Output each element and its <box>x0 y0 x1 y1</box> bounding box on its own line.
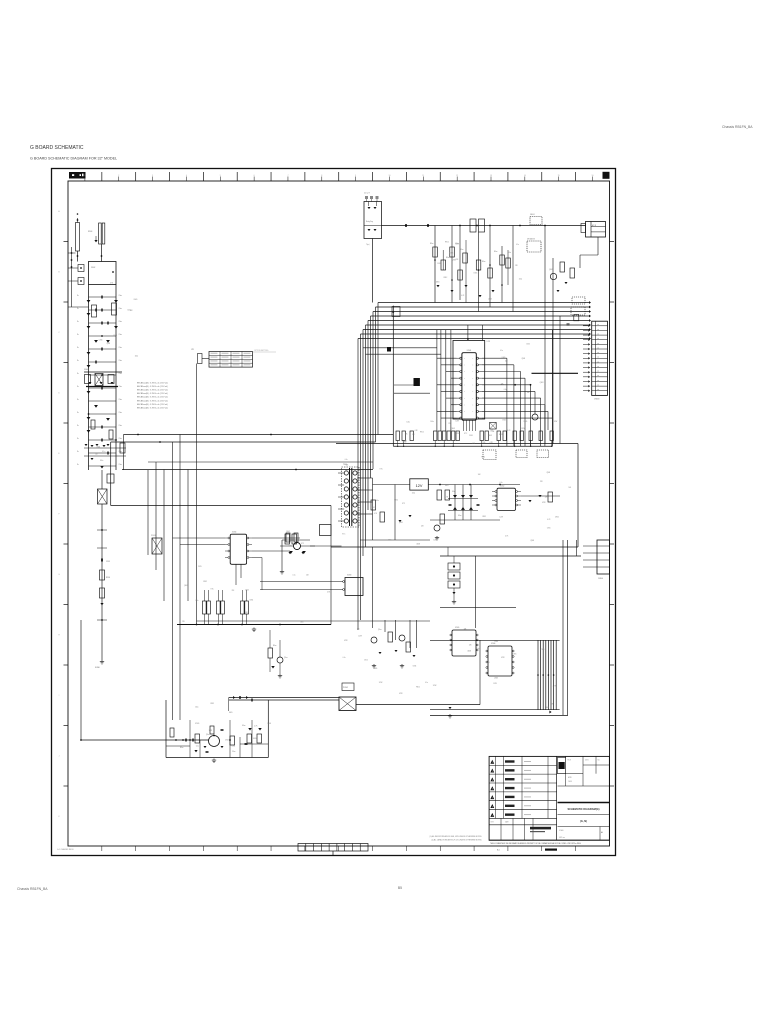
wire vertical right <box>562 540 564 715</box>
pin <box>247 557 249 559</box>
grid tick column minor <box>422 177 424 182</box>
svg-text:C1 C2 T: C1 C2 T <box>364 193 370 195</box>
connector row line <box>592 334 608 336</box>
svg-text:R916: R916 <box>106 577 110 579</box>
pin <box>476 377 478 379</box>
transformer winding <box>344 495 348 499</box>
grid tick row left <box>64 543 69 545</box>
svg-text:JP1: JP1 <box>191 349 194 351</box>
pin stub <box>457 357 460 359</box>
svg-text:T(xx): T(xx) <box>366 244 370 246</box>
resistor R11 <box>410 431 413 441</box>
svg-text:D905: D905 <box>502 357 506 359</box>
svg-text:0.1u: 0.1u <box>373 507 376 509</box>
capacitor C910 <box>101 559 102 562</box>
junction <box>101 374 103 376</box>
transformer core line <box>351 468 353 526</box>
pin stub <box>225 537 228 539</box>
svg-text:EECB3xxx(B) : 3.3V B+ ok (7.5: EECB3xxx(B) : 3.3V B+ ok (7.5V ok) <box>137 404 168 406</box>
pin <box>460 384 462 386</box>
wire <box>366 353 441 355</box>
diode D983 <box>413 655 416 657</box>
svg-text:7: 7 <box>287 175 288 177</box>
grid tick column <box>202 172 204 181</box>
wire IC bottom <box>463 420 465 431</box>
wire rail <box>430 639 560 641</box>
filter FB904 <box>571 307 585 315</box>
svg-text:0.1u: 0.1u <box>516 244 519 246</box>
option table column line <box>230 352 232 368</box>
wire <box>551 441 553 447</box>
wire IC left net <box>446 371 457 373</box>
diode D10 <box>114 326 118 329</box>
option table cell text <box>233 352 240 355</box>
fold-mark divider <box>313 844 315 852</box>
transformer lead <box>338 472 344 474</box>
title thick divider <box>558 802 610 804</box>
resistor R962 <box>445 490 450 500</box>
inductor L902 <box>479 219 485 232</box>
pin <box>476 634 478 636</box>
wire <box>101 470 103 489</box>
connector CN903 <box>592 321 608 395</box>
pin <box>512 650 514 652</box>
svg-text:x: x <box>473 398 474 400</box>
wire <box>576 540 578 556</box>
pin <box>512 661 514 663</box>
revision table row line <box>489 800 556 802</box>
wire IC left net <box>451 404 457 406</box>
resistor R982 <box>406 642 411 652</box>
diode D21 <box>450 290 453 292</box>
svg-text:R912: R912 <box>445 242 449 244</box>
svg-text:10K: 10K <box>464 628 467 630</box>
resistor R6 <box>476 260 481 270</box>
junction <box>514 384 516 386</box>
wire IC bottom <box>472 420 474 431</box>
connector pin arrow <box>588 357 590 360</box>
svg-text:10K: 10K <box>505 361 508 363</box>
wire <box>239 737 241 758</box>
junction <box>459 225 461 227</box>
wire <box>474 556 476 628</box>
svg-text:x: x <box>464 358 465 360</box>
pin <box>450 644 452 646</box>
diode D989 <box>549 711 551 714</box>
svg-text:EECB3xxx(B) : 3.3V B+ ok (7.5: EECB3xxx(B) : 3.3V B+ ok (7.5V ok) <box>137 400 168 402</box>
wire section border left <box>392 306 394 447</box>
wire section top border <box>336 443 578 445</box>
diode D924 <box>374 229 377 231</box>
wire <box>241 590 243 601</box>
grid tick row left <box>64 664 69 666</box>
inner border frame <box>68 181 610 846</box>
svg-text:xxx: xxx <box>597 329 599 331</box>
fold-mark divider <box>344 844 346 852</box>
wire bus line <box>358 338 589 340</box>
svg-text:C9xx: C9xx <box>119 321 123 323</box>
wire bus arrow <box>589 337 591 340</box>
wire <box>443 441 445 447</box>
svg-text:D905: D905 <box>229 712 233 714</box>
svg-text:5: 5 <box>220 175 221 177</box>
pin <box>486 650 488 652</box>
svg-text:0.1u: 0.1u <box>102 451 105 453</box>
svg-text:10: 10 <box>388 175 390 177</box>
pin <box>460 371 462 373</box>
grid tick row left <box>64 785 69 787</box>
wire <box>166 745 190 747</box>
wire IC right vertical <box>547 411 549 430</box>
wire <box>235 564 237 585</box>
connector row line <box>592 357 608 359</box>
title row line <box>489 824 556 826</box>
wire IC right vertical <box>524 378 526 446</box>
resistor R5 <box>463 253 468 263</box>
svg-text:D905: D905 <box>253 738 257 740</box>
svg-text:xxx: xxx <box>597 324 599 326</box>
pin <box>486 672 488 674</box>
wire <box>95 374 103 386</box>
resistor R984 <box>230 736 235 745</box>
wire AC main line <box>382 225 586 227</box>
grid tick column minor <box>219 177 221 182</box>
svg-text:10K: 10K <box>346 465 349 467</box>
grid tick column minor <box>456 177 458 182</box>
logo mark <box>72 174 74 176</box>
svg-text:Q903: Q903 <box>494 677 498 679</box>
connector pin arrow <box>588 352 590 355</box>
inductor L901 <box>470 219 476 232</box>
grid tick column bottom <box>135 846 137 851</box>
pin <box>228 537 230 539</box>
svg-text:EECB3xxx(B) : 3.3V B+ ok (7.5: EECB3xxx(B) : 3.3V B+ ok (7.5V ok) <box>137 393 168 395</box>
pin stub wire <box>583 385 588 387</box>
svg-text:IC902: IC902 <box>500 486 504 488</box>
logo mark <box>82 174 84 177</box>
resistor R1 <box>433 247 438 257</box>
svg-text:C934: C934 <box>413 666 417 668</box>
capacitor C951 <box>567 324 570 325</box>
svg-text:x: x <box>464 404 465 406</box>
svg-text:R912: R912 <box>444 277 448 279</box>
ground <box>448 714 452 718</box>
option table column line <box>219 352 221 368</box>
junction <box>77 219 79 221</box>
option table row line <box>209 354 253 356</box>
resistor R922 <box>570 268 575 278</box>
svg-text:x: x <box>473 365 474 367</box>
svg-text:x: x <box>464 398 465 400</box>
IC U906 <box>488 646 512 676</box>
svg-text:22K: 22K <box>515 265 518 267</box>
pin <box>460 390 462 392</box>
drawing code bold <box>530 827 551 830</box>
svg-text:0.1u: 0.1u <box>504 389 507 391</box>
resistor R24 <box>529 431 532 441</box>
svg-text:Q903: Q903 <box>530 540 534 542</box>
resistor R963 <box>548 492 553 502</box>
grid tick row left <box>64 483 69 485</box>
grid tick row right <box>610 422 615 424</box>
connector row line <box>597 552 610 554</box>
svg-text:R912: R912 <box>203 581 207 583</box>
fold-mark divider <box>320 844 322 852</box>
grid tick column bottom <box>372 846 374 851</box>
grid tick column <box>541 172 543 181</box>
wire <box>229 720 231 758</box>
grid tick column minor <box>287 177 289 182</box>
junction <box>229 739 231 741</box>
svg-text:xxx: xxx <box>597 380 599 382</box>
wire <box>479 640 481 704</box>
wire IC left net <box>437 410 457 412</box>
svg-text:100u: 100u <box>375 500 379 502</box>
diode D963 <box>398 520 401 522</box>
junction <box>469 484 471 486</box>
wire <box>498 441 500 447</box>
wire ladder rung <box>89 374 117 376</box>
wire <box>442 250 444 270</box>
resistor R901 <box>99 223 102 244</box>
junction <box>530 384 532 386</box>
svg-text:C: C <box>58 332 60 334</box>
connector CN904 <box>597 540 610 574</box>
connector row line <box>592 390 608 392</box>
svg-text:G-1 CHASSIS REV0: G-1 CHASSIS REV0 <box>57 848 74 851</box>
diode D905 <box>111 382 114 384</box>
diode D961 <box>528 500 531 502</box>
revision entry <box>524 796 531 799</box>
option table cell text <box>222 364 229 367</box>
junction <box>101 619 103 621</box>
svg-text:x: x <box>473 358 474 360</box>
wire long horizontal B+ <box>124 434 394 436</box>
drawing code bold <box>530 831 545 832</box>
fuse F901 <box>76 223 80 252</box>
connector row line <box>592 325 608 327</box>
capacitor C901 <box>78 265 84 272</box>
pin <box>476 649 478 651</box>
svg-text:D905: D905 <box>403 441 407 443</box>
revision triangle mark <box>490 804 494 808</box>
svg-text:16: 16 <box>592 175 594 177</box>
pin <box>476 371 478 373</box>
grid tick column bottom <box>473 846 475 851</box>
transformer winding <box>353 503 357 507</box>
svg-text:2: 2 <box>492 771 493 773</box>
svg-text:THIS DOCUMENT AND THE INFORMAT: THIS DOCUMENT AND THE INFORMATION HEREIN… <box>490 842 581 845</box>
resistor R913 <box>91 420 95 429</box>
wire <box>189 720 191 758</box>
junction <box>71 266 73 268</box>
pin <box>516 491 518 493</box>
fold-mark divider <box>328 844 330 852</box>
revision col line <box>547 756 549 818</box>
pin <box>495 504 497 506</box>
wire IC left vertical <box>436 330 438 431</box>
diode D11 <box>94 340 98 343</box>
svg-text:D9xx: D9xx <box>458 515 462 517</box>
connector pin arrow <box>588 362 590 365</box>
svg-text:6: 6 <box>492 806 493 808</box>
wire long horizontal <box>122 469 373 471</box>
wire <box>467 325 469 339</box>
svg-text:x: x <box>464 391 465 393</box>
svg-text:D905: D905 <box>474 272 478 274</box>
pin stub <box>478 390 482 392</box>
svg-text:4.7K: 4.7K <box>445 496 448 498</box>
diode D933 <box>289 551 293 554</box>
diode D931 <box>288 552 291 554</box>
wire <box>366 199 368 202</box>
svg-text:IC904: IC904 <box>232 532 236 534</box>
svg-text:(G, N): (G, N) <box>580 819 587 823</box>
svg-text:KTC: KTC <box>380 468 384 470</box>
wire <box>597 237 599 255</box>
top-left sheet logo box <box>69 172 86 179</box>
svg-text:5: 5 <box>492 798 493 800</box>
wire <box>279 640 281 657</box>
junction <box>405 225 407 227</box>
svg-text:Q901: Q901 <box>549 269 553 271</box>
wire IC left net <box>437 357 457 359</box>
transformer winding <box>353 471 357 475</box>
resistor R29 <box>217 601 221 614</box>
svg-text:xxx: xxx <box>597 357 599 359</box>
diode D903 <box>89 382 92 384</box>
wire bus arrow <box>589 306 591 309</box>
grid tick column <box>304 172 306 181</box>
svg-text:C915: C915 <box>444 440 448 442</box>
connector pin arrow <box>588 348 590 351</box>
fold-mark divider <box>351 844 353 852</box>
svg-text:22K: 22K <box>357 629 360 631</box>
wire <box>507 250 509 285</box>
revision bold entry <box>505 796 515 798</box>
pin stub <box>457 377 460 379</box>
pin stub <box>225 544 228 546</box>
wire bus arrow <box>589 315 591 318</box>
pin stub <box>492 495 495 497</box>
diode D28 <box>469 495 473 498</box>
pin <box>486 667 488 669</box>
wire bus vertical <box>367 321 369 511</box>
svg-text:C9xx: C9xx <box>119 399 123 401</box>
transformer winding <box>353 511 357 515</box>
svg-text:x: x <box>473 411 474 413</box>
IC U904 <box>230 534 246 564</box>
diode D982 <box>395 650 398 652</box>
wire <box>241 614 243 625</box>
capacitor C923 <box>376 197 379 198</box>
diode D31 <box>469 507 473 510</box>
wire drop <box>489 226 491 308</box>
svg-text:C9xx: C9xx <box>119 425 123 427</box>
pin <box>460 410 462 412</box>
title col line <box>599 827 601 841</box>
option table cell text <box>244 364 251 367</box>
diode D921 <box>368 207 371 209</box>
capacitor C962 <box>477 504 480 505</box>
resistor R931 <box>285 534 290 544</box>
option table cell text <box>244 360 251 363</box>
svg-text:10K: 10K <box>527 392 530 394</box>
wire <box>246 614 248 625</box>
svg-text:APPD: APPD <box>568 776 572 779</box>
wire <box>261 558 263 591</box>
svg-text:xxx: xxx <box>597 366 599 368</box>
grid tick column minor <box>388 177 390 182</box>
junction <box>537 674 539 676</box>
svg-text:xxx: xxx <box>597 371 599 373</box>
transistor Q907 <box>532 414 538 420</box>
svg-text:22K: 22K <box>469 644 472 646</box>
resistor R932 <box>292 534 297 544</box>
svg-text:xxx: xxx <box>597 333 599 335</box>
capacitor C987 <box>245 743 248 744</box>
svg-text:Q9xx: Q9xx <box>206 734 210 736</box>
svg-text:C9xx: C9xx <box>119 347 123 349</box>
wire vertical <box>384 620 386 632</box>
diode D12 <box>106 340 110 343</box>
diode D5 <box>87 365 91 368</box>
svg-text:1/2W: 1/2W <box>501 657 505 659</box>
svg-text:100u: 100u <box>135 356 139 358</box>
wire ladder rung <box>89 361 117 363</box>
junction <box>551 446 552 447</box>
svg-text:I: I <box>59 695 60 697</box>
wire vertical <box>394 620 396 640</box>
wire ladder rung <box>89 309 117 311</box>
pin stub wire <box>583 552 597 554</box>
revision entry <box>524 760 531 763</box>
revision table row line <box>489 817 556 819</box>
junction <box>213 735 215 737</box>
wire bus vertical <box>370 316 372 478</box>
grid tick row right <box>610 483 615 485</box>
pin <box>460 357 462 359</box>
fold-mark divider <box>359 844 361 852</box>
pin <box>476 410 478 412</box>
svg-text:4.7K: 4.7K <box>553 685 556 687</box>
svg-text:Rx: Rx <box>77 347 79 349</box>
wire IC right vertical <box>540 398 542 446</box>
option table cell text <box>222 352 229 355</box>
wire IC left vertical <box>445 330 447 431</box>
svg-text:B5: B5 <box>398 886 402 890</box>
wire comb <box>555 640 557 709</box>
svg-text:C934: C934 <box>113 335 117 337</box>
grid tick row right <box>610 604 615 606</box>
wire left chain <box>101 504 103 660</box>
diode D15 <box>91 445 94 447</box>
resistor R3 <box>450 247 455 257</box>
diode D992 <box>194 750 197 752</box>
svg-text:D: D <box>58 393 60 395</box>
diode D984 <box>449 707 452 709</box>
diode D17 <box>103 445 106 447</box>
diode D991 <box>246 696 248 699</box>
wire comb <box>537 640 539 709</box>
svg-text:DWG: DWG <box>585 760 588 762</box>
junction <box>80 267 82 269</box>
resistor R26 <box>550 431 553 441</box>
grid tick row left <box>64 725 69 727</box>
wire bus line <box>371 315 590 317</box>
wire <box>222 614 224 625</box>
diode D964 <box>408 515 411 517</box>
